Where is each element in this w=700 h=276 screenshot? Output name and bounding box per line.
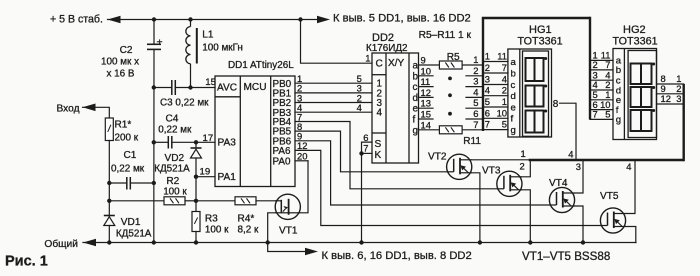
junction C4 / VD2	[194, 140, 198, 144]
svg-text:6: 6	[473, 108, 478, 119]
capacitor C3	[171, 80, 173, 95]
svg-text:c: c	[413, 82, 418, 93]
wire DD2 K stub	[362, 152, 373, 154]
junction C1 left	[107, 181, 111, 185]
svg-text:х 16 В: х 16 В	[107, 69, 135, 80]
svg-text:e: e	[413, 104, 419, 115]
wire HG2 pin 9 to bus	[657, 93, 684, 95]
wire bus to HG1 d	[483, 95, 508, 97]
wire DD2 S,K to common	[362, 142, 373, 242]
wire PB5 to VT2 gate	[295, 131, 447, 172]
HG1 digit 2	[526, 86, 544, 107]
wire VT2 drain to bus	[472, 159, 529, 161]
svg-text:d: d	[413, 93, 419, 104]
resistor R3	[192, 212, 200, 232]
wire input to R1	[83, 107, 110, 118]
svg-text:100 к: 100 к	[205, 225, 229, 236]
wire b stub to bus	[466, 75, 483, 77]
capacitor C4	[167, 136, 169, 149]
svg-text:4: 4	[626, 161, 631, 172]
transistor VT3	[497, 171, 522, 196]
svg-text:d: d	[511, 91, 516, 102]
svg-text:5: 5	[502, 119, 507, 130]
wire bus to HG1 g	[483, 129, 508, 131]
ellipsis dots R6-R10	[448, 77, 452, 81]
svg-text:VT3: VT3	[482, 166, 501, 177]
svg-text:1: 1	[485, 51, 490, 62]
HG1 letters divider	[519, 49, 521, 137]
wire R5 to bus	[462, 64, 483, 66]
svg-text:PA6: PA6	[273, 146, 291, 157]
wire c stub to bus	[466, 86, 483, 88]
svg-text:Рис. 1: Рис. 1	[5, 254, 48, 270]
wire bus to HG2 g	[590, 118, 613, 120]
svg-text:0,22 мк: 0,22 мк	[111, 163, 145, 174]
wire f stub to bus	[466, 118, 483, 120]
junction VT3 source	[528, 240, 532, 244]
junction DD1 pin19 tap	[194, 175, 198, 179]
svg-text:9: 9	[421, 55, 426, 66]
wire R11 to bus	[462, 129, 483, 131]
wire DD1 to DD2 input (pin 4)	[295, 111, 372, 113]
wire PB4 to VT3 gate	[295, 122, 497, 189]
HG1 digit window	[523, 51, 549, 136]
svg-text:7: 7	[485, 119, 490, 130]
svg-text:КД521А: КД521А	[154, 163, 190, 174]
arrow to +5V stabilized	[108, 16, 121, 24]
junction +5V / C2	[152, 17, 156, 21]
wire common rail	[83, 242, 636, 244]
svg-text:РА3: РА3	[218, 138, 237, 149]
wire bus to HG1 f	[483, 117, 508, 119]
svg-text:b: b	[413, 71, 419, 82]
junction VT4 source	[581, 240, 585, 244]
wire DD2 e stub	[419, 107, 434, 109]
svg-text:4: 4	[357, 102, 362, 113]
svg-text:X/Y: X/Y	[388, 58, 405, 69]
wire VD1 to common	[108, 226, 110, 243]
HG1 digit 1	[526, 58, 544, 81]
wire HG2 pin 8 to bus	[657, 83, 684, 85]
svg-text:a: a	[413, 61, 419, 72]
svg-text:РА1: РА1	[218, 172, 237, 183]
arrow input	[83, 104, 96, 112]
group bus segments vertical right	[589, 17, 591, 120]
wire bus to HG1 a	[483, 61, 508, 63]
svg-text:L1: L1	[202, 30, 214, 41]
svg-text:10: 10	[421, 65, 431, 76]
svg-text:15: 15	[421, 109, 431, 120]
svg-text:AVC: AVC	[217, 83, 237, 94]
diode VD2	[191, 147, 202, 149]
wire VD2 top	[195, 142, 197, 148]
wire bus to HG1 b	[483, 72, 508, 74]
wire R4 left	[196, 200, 235, 202]
wire bus to HG2 e	[590, 99, 613, 101]
inductor L1	[190, 20, 192, 27]
svg-text:12: 12	[421, 87, 431, 98]
resistor R4	[235, 197, 256, 205]
wire DD1 to DD2 input (pin 3)	[295, 92, 372, 94]
wire VT5 source to common end	[626, 227, 636, 243]
svg-text:4: 4	[485, 85, 490, 96]
wire common branch annotation	[268, 243, 306, 252]
svg-text:R4*: R4*	[238, 214, 255, 225]
wire HG1 pin8 to cathode bus	[560, 103, 577, 159]
svg-text:S: S	[375, 139, 382, 150]
display HG1 TOT3361 box	[508, 49, 552, 137]
HG2 digit 3	[631, 110, 652, 131]
svg-text:+ 5 В стаб.: + 5 В стаб.	[50, 14, 103, 26]
wire C2 top	[153, 20, 155, 45]
svg-text:R5: R5	[447, 52, 460, 63]
wire R4 to VT1 gate	[256, 200, 275, 202]
diode VD1	[104, 215, 115, 217]
HG2 digit 2	[631, 87, 652, 107]
capacitor C2	[147, 43, 161, 45]
svg-text:10: 10	[497, 107, 507, 118]
group bus cathodes horizontal	[529, 159, 684, 161]
wire bus to HG2 b	[590, 69, 613, 71]
svg-text:+: +	[157, 36, 163, 48]
wire to DD1 pin19	[196, 176, 215, 178]
svg-text:VT5: VT5	[600, 191, 619, 202]
svg-text:Общий: Общий	[44, 238, 78, 250]
IC DD2 К176ИД2 box	[372, 53, 419, 163]
junction C4 left	[152, 140, 156, 144]
wire VT3 drain to bus	[522, 160, 530, 177]
svg-text:e: e	[511, 102, 516, 113]
svg-text:Вход: Вход	[57, 104, 80, 115]
svg-text:11: 11	[497, 51, 507, 62]
svg-text:1: 1	[521, 148, 526, 159]
resistor R11	[439, 126, 462, 134]
svg-text:VT2: VT2	[428, 152, 447, 163]
svg-text:К выв. 6, 16 DD1, выв. 8 DD2: К выв. 6, 16 DD1, выв. 8 DD2	[322, 250, 472, 262]
wire e stub to bus	[466, 107, 483, 109]
group bus segments vertical left	[482, 18, 484, 131]
wire DD2 b stub	[419, 75, 434, 77]
wire C3 left	[154, 87, 172, 89]
svg-text:7: 7	[473, 119, 478, 130]
svg-text:7: 7	[363, 143, 368, 154]
L1 core bar	[196, 28, 198, 64]
svg-text:11: 11	[421, 76, 431, 87]
svg-text:КД521А: КД521А	[116, 228, 152, 239]
wire C2 bottom to common	[153, 49, 155, 242]
svg-text:2: 2	[502, 85, 507, 96]
wire C1 left	[109, 182, 127, 184]
svg-text:8: 8	[553, 99, 559, 110]
arrow to pins 6,16 DD1, 8 DD2	[305, 248, 318, 256]
svg-text:5: 5	[605, 109, 610, 120]
svg-text:8,2 к: 8,2 к	[238, 225, 259, 236]
svg-text:ТОТ3361: ТОТ3361	[518, 35, 563, 47]
transistor VT4	[549, 187, 574, 212]
svg-text:17: 17	[203, 133, 214, 144]
wire VT1 source to common	[268, 213, 276, 243]
wire DD2 c stub	[419, 86, 434, 88]
svg-text:5: 5	[485, 96, 490, 107]
wire PA0 stub	[295, 160, 308, 162]
display HG2 TOT3361 box	[613, 49, 657, 140]
wire VT1 drain to PA0 line	[300, 161, 308, 213]
capacitor C1	[126, 177, 128, 190]
svg-text:100 мкГн: 100 мкГн	[202, 43, 243, 54]
svg-text:VT4: VT4	[549, 178, 568, 189]
svg-text:f: f	[413, 115, 416, 126]
wire DD1 to DD2 input (pin 2)	[295, 102, 372, 104]
wire bus to HG2 d	[590, 89, 613, 91]
wire DD2 a to R5	[419, 64, 440, 66]
wire C4 left	[154, 141, 169, 143]
svg-text:3: 3	[676, 93, 681, 104]
wire VT5 drain to bus	[626, 160, 635, 214]
svg-text:C: C	[376, 59, 383, 70]
arrow to pin5 DD1 / pin16 DD2	[317, 16, 330, 24]
junction VT1 source/common	[266, 240, 270, 244]
svg-text:7: 7	[593, 109, 598, 120]
wire R2 right	[185, 200, 196, 202]
wire VD2 to R2/R4 node	[195, 158, 197, 201]
svg-text:5: 5	[473, 97, 478, 108]
svg-text:1: 1	[473, 54, 478, 65]
resistor R5	[439, 61, 462, 69]
svg-text:MCU: MCU	[244, 82, 267, 93]
svg-text:K: K	[375, 150, 382, 161]
svg-text:13: 13	[421, 98, 431, 109]
junction +5V / DD2 C branch	[298, 17, 302, 21]
wire C3 to DD1 pin15	[175, 87, 215, 89]
junction VD1/common	[107, 240, 111, 244]
wire DD2 f stub	[419, 118, 434, 120]
svg-text:HG2: HG2	[623, 24, 646, 36]
transistor VT1	[275, 194, 300, 219]
svg-text:2: 2	[473, 65, 478, 76]
wire DD1 to DD2 input (pin 5)	[295, 82, 372, 84]
svg-text:7: 7	[502, 62, 507, 73]
svg-text:К выв. 5 DD1, выв. 16 DD2: К выв. 5 DD1, выв. 16 DD2	[333, 12, 471, 24]
svg-text:PA0: PA0	[273, 156, 291, 167]
svg-text:ТОТ3361: ТОТ3361	[613, 35, 658, 47]
HG1 digit 3	[526, 111, 544, 133]
wire +5V to DD2 C input	[301, 20, 373, 64]
transistor VT5	[600, 208, 625, 233]
svg-text:4: 4	[473, 86, 478, 97]
svg-text:b: b	[511, 68, 516, 79]
junction C-line/common	[152, 240, 156, 244]
svg-text:R2: R2	[166, 176, 179, 187]
svg-text:C1: C1	[124, 150, 137, 161]
wire +5V rail	[108, 19, 319, 21]
junction R2 left	[107, 199, 111, 203]
svg-text:g: g	[413, 125, 419, 136]
svg-text:f: f	[511, 114, 514, 125]
svg-text:R1*: R1*	[115, 120, 132, 131]
DD1 internal dividers	[239, 76, 241, 187]
wire R1 bottom / VD1 top	[108, 141, 110, 216]
wire d stub to bus	[466, 96, 483, 98]
junction C3/C2 line	[152, 85, 156, 89]
svg-text:VT1–VT5 BSS88: VT1–VT5 BSS88	[522, 250, 610, 263]
svg-text:12: 12	[661, 93, 671, 104]
junction +5V / L1	[188, 17, 192, 21]
DD2 internal dividers	[385, 53, 387, 163]
svg-text:3: 3	[485, 74, 490, 85]
svg-text:R3: R3	[205, 214, 218, 225]
resistor R1	[105, 118, 113, 141]
svg-text:3: 3	[473, 76, 478, 87]
wire R2 left	[109, 200, 164, 202]
junction L1 bottom	[188, 85, 192, 89]
svg-text:C3 0,22 мк: C3 0,22 мк	[160, 98, 209, 109]
wire VT2 source to common	[472, 173, 480, 243]
group bus cathodes vertical right	[683, 84, 685, 161]
wire PA6 to VT5 gate	[295, 150, 600, 225]
wire bus to HG1 c	[483, 84, 508, 86]
wire R3 top	[195, 201, 197, 212]
svg-text:2: 2	[485, 62, 490, 73]
wire DD2 g to R11	[419, 129, 440, 131]
svg-text:4: 4	[502, 74, 507, 85]
junction C1 right	[152, 181, 156, 185]
svg-text:HG1: HG1	[529, 24, 552, 36]
svg-text:a: a	[511, 57, 517, 68]
wire PB6 to VT4 gate	[295, 141, 549, 205]
svg-text:6: 6	[363, 132, 368, 143]
junction R3/common	[194, 240, 198, 244]
junction DD2 S-K ground	[359, 240, 363, 244]
svg-text:14: 14	[421, 119, 431, 130]
svg-text:19: 19	[200, 167, 211, 178]
resistor R2	[164, 197, 185, 205]
svg-text:1: 1	[502, 96, 507, 107]
svg-text:К176ИД2: К176ИД2	[366, 43, 408, 54]
svg-text:100 мк х: 100 мк х	[101, 56, 139, 67]
svg-text:1: 1	[365, 53, 370, 64]
svg-text:3: 3	[576, 161, 581, 172]
svg-text:2: 2	[520, 160, 525, 171]
HG2 letters divider	[623, 49, 625, 140]
transistor VT2	[447, 154, 472, 179]
svg-text:0,22 мк: 0,22 мк	[158, 125, 192, 136]
svg-text:VD1: VD1	[121, 217, 141, 228]
svg-text:VT1: VT1	[279, 226, 298, 237]
svg-text:100 к: 100 к	[163, 187, 187, 198]
wire R3 bottom	[195, 232, 197, 243]
svg-text:200 к: 200 к	[115, 133, 139, 144]
wire VT4 source to common	[575, 206, 583, 243]
wire DD2 d stub	[419, 96, 434, 98]
svg-text:c: c	[511, 80, 516, 91]
svg-text:C4: C4	[166, 114, 179, 125]
svg-text:DD1 ATtiny26L: DD1 ATtiny26L	[228, 60, 294, 71]
junction S-K ground line	[359, 151, 363, 155]
svg-text:R5–R11 1 к: R5–R11 1 к	[419, 30, 472, 41]
svg-text:6: 6	[485, 107, 490, 118]
HG2 digit 1	[631, 64, 652, 85]
wire bus to HG1 e	[483, 106, 508, 108]
wire bus to HG2 f	[590, 109, 613, 111]
wire C4 to DD1 pin17	[172, 141, 215, 143]
svg-text:12: 12	[297, 140, 307, 151]
junction VT2 source	[478, 240, 482, 244]
svg-text:4: 4	[377, 108, 383, 119]
group bus segments top	[482, 17, 590, 19]
HG2 digit window	[628, 51, 656, 138]
svg-text:C2: C2	[120, 45, 133, 56]
wire HG2 pin 12 to bus	[657, 103, 684, 105]
arrow common	[83, 239, 96, 247]
svg-text:g: g	[616, 115, 621, 126]
wire VT3 source to common	[522, 190, 530, 243]
svg-text:4: 4	[568, 148, 573, 159]
wire VT4 drain to bus	[575, 160, 583, 193]
svg-text:R11: R11	[463, 136, 481, 147]
svg-text:20: 20	[297, 151, 307, 162]
wire C1 right	[130, 182, 154, 184]
wire bus to HG2 a	[590, 59, 613, 61]
wire bus to HG2 c	[590, 79, 613, 81]
svg-text:g: g	[511, 125, 516, 136]
IC DD1 ATtiny26L box	[215, 76, 295, 187]
junction R2/R3/R4/VD2	[194, 199, 198, 203]
